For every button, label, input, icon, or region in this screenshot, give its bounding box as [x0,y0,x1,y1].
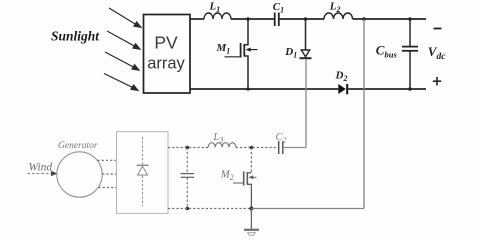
sunlight arrow 4 [104,74,138,91]
svg-text:Cbus: Cbus [376,43,398,60]
svg-text:C2: C2 [276,132,287,145]
capacitor C1 [275,13,279,27]
wire rectifier bottom output [168,208,251,210]
terminal minus [434,28,442,30]
wire riser C2 to D1 cathode [305,59,307,148]
svg-text:array: array [147,55,185,73]
inductor L3 [208,143,236,148]
wire C2 to riser [283,147,306,149]
svg-text:Wind: Wind [29,162,53,174]
sunlight arrow 2 [107,31,140,49]
rectifier diode [137,137,149,206]
capacitor Cbus [402,19,418,89]
svg-text:PV: PV [154,33,178,53]
svg-text:M2: M2 [220,169,234,182]
wire C1 to L2 [279,18,324,20]
inductor L1 [204,13,231,19]
PV array box [144,15,191,94]
wire D2 to right terminal [348,88,426,90]
diode D1 [300,19,312,58]
svg-text:D1: D1 [284,46,297,60]
svg-text:Generator: Generator [58,141,98,151]
node top bus / wind return junction [362,17,366,21]
wire PV top output [190,18,204,20]
inductor L2 [324,13,353,19]
node Cbus bottom junction [408,87,412,91]
svg-text:L1: L1 [209,0,221,14]
node M2 drain junction [250,146,254,150]
diode D2 [338,84,347,94]
terminal plus [433,77,441,85]
wire PV bottom rail [190,88,338,90]
wire wind return bottom [251,208,364,210]
svg-text:Sunlight: Sunlight [51,29,100,44]
sunlight arrow 3 [105,52,139,70]
node M1 drain junction [246,17,250,21]
filter capacitor [181,148,195,209]
svg-text:M1: M1 [216,42,231,56]
node D1 anode junction [304,17,308,21]
generator circle [57,152,102,197]
generator output phase A [98,159,117,161]
svg-text:D2: D2 [335,70,348,84]
wire rectifier top output [168,147,208,149]
generator output phase C [99,187,117,189]
node filter cap top [186,146,190,150]
wire L2 to right terminal [353,18,427,20]
node ground junction [249,207,253,211]
wire L3 to C2 [236,147,279,149]
rectifier box [117,132,169,214]
node Cbus top junction [408,17,412,21]
svg-text:Vdc: Vdc [428,44,446,62]
wire wind return riser [363,19,365,209]
svg-text:C1: C1 [273,1,284,15]
wind input dashed arrow [28,171,58,176]
svg-text:L3: L3 [213,132,224,145]
sunlight arrow 1 [109,8,141,27]
svg-text:L2: L2 [329,0,341,14]
transistor M1 [225,19,258,89]
capacitor C2 [279,141,283,154]
node filter cap bottom [186,207,190,211]
wire L1 to C1 [231,18,275,20]
ground [244,209,259,236]
node M1 source junction [246,87,249,90]
PV array text [147,33,185,73]
transistor M2 [233,148,257,209]
generator output phase B [102,173,116,175]
